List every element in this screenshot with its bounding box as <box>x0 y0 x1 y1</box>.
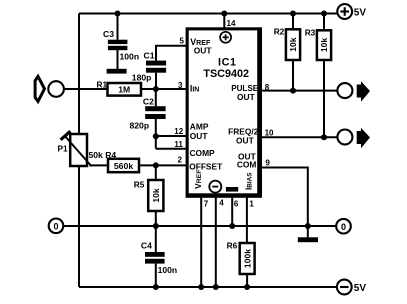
svg-text:0: 0 <box>53 221 58 231</box>
capacitor C2 <box>145 106 165 119</box>
junction: R1/C1/C2/pin3 node <box>153 86 159 92</box>
internal ground bar (pin 6) <box>226 187 238 192</box>
wire: R4 to pin 2 <box>139 164 186 166</box>
svg-text:820p: 820p <box>130 121 150 131</box>
wire: pin 9 out com <box>262 168 308 227</box>
svg-text:100k: 100k <box>242 249 252 268</box>
wire: node to C2 <box>155 89 157 106</box>
svg-text:COM: COM <box>237 160 257 170</box>
svg-text:1: 1 <box>249 199 254 208</box>
wire: node to R5 <box>155 165 157 180</box>
svg-text:C3: C3 <box>103 29 114 39</box>
svg-text:OUT: OUT <box>190 131 209 141</box>
0V terminal right <box>336 219 351 234</box>
svg-text:OUT: OUT <box>236 135 255 145</box>
wire: P1 wiper to R4 <box>90 164 109 166</box>
svg-text:1M: 1M <box>118 85 130 95</box>
wire: 0V common rail <box>63 225 336 227</box>
junction: pin6/0 rail <box>229 223 235 229</box>
resistor R5 <box>148 180 163 211</box>
wire: rail to C3 <box>117 14 119 40</box>
svg-text:0: 0 <box>341 222 346 232</box>
wire: pin 5 VREF OUT to C1 <box>156 46 186 61</box>
svg-text:5: 5 <box>179 37 184 46</box>
wire: -5V bottom rail <box>79 286 337 288</box>
resistor R3 <box>317 30 331 60</box>
wire: pin 7 to -5V rail <box>200 196 202 287</box>
wire: C3 to ground <box>117 50 119 69</box>
wire: C2 down to pin 11 level <box>155 119 157 149</box>
input terminal <box>48 81 64 97</box>
svg-text:10k: 10k <box>288 37 298 52</box>
svg-text:9: 9 <box>265 158 270 167</box>
svg-text:OUT: OUT <box>194 46 213 56</box>
svg-text:11: 11 <box>174 140 183 149</box>
junction: C2/pin12 <box>153 133 159 139</box>
svg-text:3: 3 <box>178 81 183 90</box>
svg-text:OFFSET: OFFSET <box>189 162 223 172</box>
svg-text:14: 14 <box>227 19 236 28</box>
wire: left vertical +5V rail to P1 <box>78 14 80 134</box>
wire: R5 to 0 rail <box>155 211 157 226</box>
wire: pin 8 pulse out <box>262 90 337 92</box>
input arrow symbol <box>35 76 44 101</box>
svg-text:P1: P1 <box>58 143 69 153</box>
svg-text:100n: 100n <box>120 51 140 61</box>
svg-text:R6: R6 <box>227 240 238 250</box>
junction: rail/pin14 <box>221 11 227 17</box>
svg-text:C1: C1 <box>144 50 155 60</box>
output terminal (freq/2) <box>337 130 352 145</box>
wire: pin 1 to R6 <box>246 196 248 243</box>
svg-text:R3: R3 <box>305 27 316 37</box>
output terminal (pulse) <box>337 83 352 98</box>
-5V terminal <box>337 280 352 295</box>
IC U1 body TSC9402 <box>186 27 262 198</box>
wire: pin 14 <box>223 14 225 29</box>
0V terminal left <box>49 219 64 234</box>
svg-text:180p: 180p <box>132 72 152 82</box>
potentiometer P1 wiper arrow <box>64 135 92 166</box>
resistor R6 <box>240 243 255 274</box>
svg-text:10k: 10k <box>319 38 329 53</box>
wire: R6 to -5V rail <box>246 274 248 287</box>
output arrow (freq/2) <box>357 128 370 149</box>
svg-text:OUT: OUT <box>237 92 256 102</box>
svg-text:6: 6 <box>234 199 239 208</box>
junction: R6/rail <box>244 284 250 290</box>
junction: pin7/rail <box>198 284 204 290</box>
ground symbol (0V) <box>298 237 318 242</box>
wire: R1 to pin 3 <box>141 88 186 90</box>
junction: top rail / C3 <box>115 11 121 17</box>
junction: C4/-5V rail <box>153 284 159 290</box>
wire: 0 rail to C4 <box>155 226 157 252</box>
svg-text:8: 8 <box>265 83 270 92</box>
svg-text:560k: 560k <box>114 161 133 171</box>
resistor R4 <box>108 159 139 172</box>
V- symbol inside IC (pin 4) <box>209 181 221 193</box>
junction: rail/R3 <box>321 11 327 17</box>
wire: pin 11 <box>156 148 186 150</box>
wire: pin 10 freq/2 out <box>262 136 337 138</box>
wire: C4 to -5V rail <box>155 264 157 287</box>
svg-text:R1: R1 <box>97 79 108 89</box>
svg-text:AMP: AMP <box>190 121 209 131</box>
svg-text:IBIAS: IBIAS <box>244 172 253 190</box>
junction: R4/R5/pin2 <box>153 162 159 168</box>
ground symbol (C3) <box>107 69 127 74</box>
junction: rail/R2 <box>290 11 296 17</box>
wire: ground stub <box>307 226 309 237</box>
svg-text:R2: R2 <box>274 27 285 37</box>
wire: rail to R3 <box>323 14 325 31</box>
svg-text:2: 2 <box>177 156 182 165</box>
wire: pin 4 to -5V rail <box>215 196 217 287</box>
svg-text:TSC9402: TSC9402 <box>203 68 249 80</box>
svg-text:4: 4 <box>219 199 224 208</box>
wire: R3 to freq line <box>323 60 325 137</box>
svg-text:10: 10 <box>265 129 274 138</box>
+5V terminal <box>337 4 352 19</box>
output arrow (pulse) <box>357 81 370 102</box>
junction: R3/freq <box>321 134 327 140</box>
wire: +5V top rail <box>79 13 337 15</box>
svg-text:C2: C2 <box>143 97 154 107</box>
svg-text:COMP: COMP <box>190 148 216 158</box>
resistor R2 <box>286 29 300 60</box>
svg-text:5V: 5V <box>354 7 367 18</box>
junction: R2/pulse <box>290 88 296 94</box>
junction: R5/C4/0 rail <box>153 223 159 229</box>
junction: pin4/rail <box>213 284 219 290</box>
svg-text:IC1: IC1 <box>218 56 237 68</box>
wire: pin 6 to 0 rail <box>231 196 233 226</box>
junction: pin9/0 rail <box>305 223 311 229</box>
resistor R1 <box>108 83 142 96</box>
capacitor C4 <box>145 252 165 264</box>
svg-text:100n: 100n <box>158 265 178 275</box>
V+ symbol inside IC <box>220 32 231 43</box>
svg-text:C4: C4 <box>141 240 152 250</box>
wire: P1 bottom to -5V rail <box>78 167 80 288</box>
svg-text:R5: R5 <box>134 180 145 190</box>
svg-text:5V: 5V <box>354 283 367 294</box>
capacitor C1 <box>146 61 166 73</box>
svg-text:10k: 10k <box>151 188 161 203</box>
potentiometer P1 body <box>70 134 87 166</box>
wire: R2 to pulse line <box>292 60 294 91</box>
wire: rail to R2 <box>292 14 294 30</box>
wire: C1 to input node <box>155 73 157 89</box>
svg-text:12: 12 <box>174 127 183 136</box>
wire: pin 12 <box>156 135 186 137</box>
wire: input terminal to R1 <box>64 88 108 90</box>
capacitor C3 <box>108 40 128 51</box>
svg-text:7: 7 <box>204 199 209 208</box>
